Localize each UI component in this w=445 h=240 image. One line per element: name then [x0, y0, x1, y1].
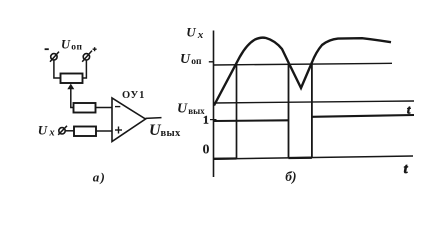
svg-text:1: 1: [203, 114, 209, 126]
svg-text:оп: оп: [191, 57, 202, 67]
svg-text:U: U: [180, 52, 191, 67]
svg-text:ОУ1: ОУ1: [122, 90, 145, 101]
svg-text:U: U: [186, 25, 196, 40]
svg-text:а): а): [93, 169, 106, 184]
svg-text:0: 0: [203, 142, 210, 157]
svg-text:б): б): [285, 169, 296, 184]
svg-text:U: U: [38, 122, 48, 137]
svg-text:х: х: [197, 29, 204, 41]
svg-text:U: U: [61, 38, 71, 52]
svg-text:U: U: [177, 102, 188, 117]
svg-text:х: х: [48, 128, 54, 139]
svg-text:вых: вых: [161, 128, 181, 139]
svg-text:t: t: [404, 161, 409, 176]
svg-text:оп: оп: [71, 43, 82, 53]
